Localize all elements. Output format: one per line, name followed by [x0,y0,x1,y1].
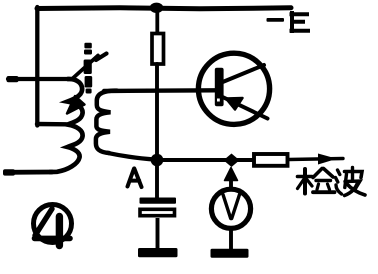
figure number ④ [34,205,72,246]
wire: node A to output resistor [163,158,252,162]
label A [128,169,142,188]
label -E [267,13,309,31]
capacitor C1 (top plate solid, bottom plate hollow) [140,166,177,250]
transistor Q1 (PNP in circle) [198,53,269,124]
wire: secondary bottom to node A [107,153,156,160]
检 [303,169,307,194]
wire: lead from rail dot down to R1 [155,9,159,35]
inductor T1 secondary winding (left-bulging bumps) [96,91,117,153]
wire: -E supply rail (top horizontal) [37,8,291,9]
arrow: tuning arrow through core (head at coil cusp) [67,54,107,114]
core of T1: adjustable core bar (dashed thick segments) [84,43,93,94]
wire: primary bottom lead to left edge [8,170,52,175]
wire: output lead with arrow [289,154,343,165]
node: voltmeter tap junction (diamond dot) [224,154,240,168]
wire: base wire from secondary top to Q1 base [104,88,216,93]
node A junction dot [151,154,164,167]
inductor T1 primary winding (right-bulging bumps) [50,79,83,172]
wire: left vertical wire from rail down to transformer tap [35,7,39,126]
wire: tap from left vertical to primary middle cusp [37,122,66,127]
波 [338,170,340,175]
voltmeter V1 [211,168,250,251]
label 检波 (detected output) [298,168,366,196]
node: junction dot on -E rail above R1 [150,3,164,13]
wire: transformer primary top lead (from left edge) [8,77,68,81]
wire: R1 bottom lead down through base wire to node A [155,64,159,160]
ground bar under V1 [211,249,249,258]
resistor R1 (vertical, bias) [152,34,164,65]
resistor R2 (horizontal, output) [254,154,288,166]
ground bar under C1 [138,248,178,257]
